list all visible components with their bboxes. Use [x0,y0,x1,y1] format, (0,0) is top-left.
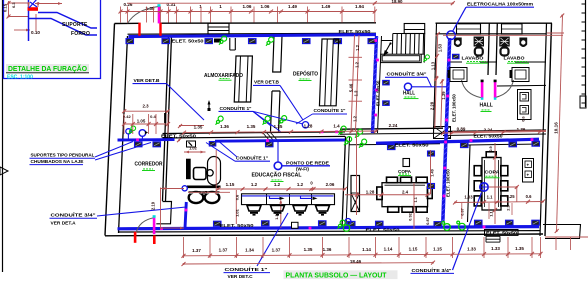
svg-text:1.35: 1.35 [247,124,256,129]
svg-text:1.35: 1.35 [304,247,313,252]
title PLANTA SUBSOLO LAYOUT [284,270,398,279]
svg-text:1.36: 1.36 [517,127,526,132]
wall: top wall outer line left section [115,22,140,24]
svg-text:VER DET.A: VER DET.A [51,220,77,226]
copa2 chairs [474,166,481,176]
svg-text:PONTO DE REDE: PONTO DE REDE [286,160,330,166]
svg-text:ELET. 100x50: ELET. 100x50 [452,94,457,122]
green clover symbols [217,35,228,46]
copa1 cabinet [351,176,360,212]
stairs treads [391,34,394,55]
svg-text:1.2: 1.2 [297,182,304,187]
hall double door arcs [462,80,481,98]
dims: right vertical 10.16 [557,15,563,233]
corridor office monitor [194,168,207,180]
wall: educacao fiscal right wall [342,136,346,228]
svg-text:1.1: 1.1 [487,194,493,199]
svg-text:1.15: 1.15 [409,247,418,252]
svg-text:2.19: 2.19 [151,201,156,210]
svg-text:1.1: 1.1 [414,197,418,202]
eletrocalha bottom wall run [118,227,540,229]
black tall numeral near corridor wall [164,113,166,123]
dims: right wall verticals 1.39/2.28 [435,76,437,128]
dims: copa2 red line from circle [489,186,518,188]
svg-text:10.16: 10.16 [554,122,559,134]
dims: red riser at desk 3 [280,201,282,228]
detail: forro ceiling blue lines [38,13,97,29]
svg-text:0.10: 0.10 [31,30,40,35]
dims: room verticals [235,190,237,224]
service box bottom wall [292,222,299,228]
red tick on corridor blue line [177,138,181,142]
wall: top wall inner line left section [128,33,377,34]
svg-text:1.13: 1.13 [431,61,436,70]
copa2 cabinet [523,159,534,183]
dims: copa2 row [455,202,543,203]
classroom desk band [242,194,335,205]
wall: top wall right section outer [436,22,553,24]
svg-text:SUPORTE: SUPORTE [62,22,88,28]
eletrocalha corridor mid run [118,138,175,141]
wall: deposito right wall (under riser) [372,36,376,133]
svg-text:1.35: 1.35 [194,124,203,129]
copa1 table [382,183,428,207]
svg-text:0.6: 0.6 [526,194,532,199]
svg-text:1.94: 1.94 [355,4,364,9]
svg-text:(W-FI): (W-FI) [296,167,309,172]
svg-text:FORRO: FORRO [71,31,90,37]
svg-text:5.46: 5.46 [349,83,354,92]
svg-text:LAVABO: LAVABO [462,55,484,60]
wall: almoxarifado-deposito divider lower [271,91,281,132]
black junction box on top wall [214,39,221,43]
svg-text:1.06: 1.06 [243,4,252,9]
wall: left wall inner [119,36,128,233]
deposito locker rack [319,39,338,106]
svg-text:1.28: 1.28 [304,124,313,129]
svg-text:ELET. 50x50: ELET. 50x50 [339,29,371,35]
eletrocalha vertical run mid (deposito wall) [373,36,377,133]
wall: corridor right wall [163,36,169,201]
svg-text:1.35: 1.35 [274,124,283,129]
wall: copa2 left wall [468,145,471,222]
svg-text:1.14: 1.14 [384,247,393,252]
eletrocalha educacao fiscal left wall run [185,202,186,228]
svg-text:DETALHE DA FURAÇÃO: DETALHE DA FURAÇÃO [8,64,88,73]
svg-text:2.3: 2.3 [506,204,511,210]
wall: lavabo floor walls [447,61,462,63]
svg-text:PLANTA SUBSOLO — LAYOUT: PLANTA SUBSOLO — LAYOUT [286,271,388,280]
wall: right wall inner [540,23,547,236]
stairs rail band [381,40,393,42]
svg-text:1.4: 1.4 [333,123,340,128]
junction box right run top [453,54,460,59]
node circle office [182,186,187,191]
svg-text:1.02: 1.02 [189,145,198,150]
corridor office shelf bar [186,159,191,180]
svg-text:1.2: 1.2 [354,61,359,67]
svg-text:1.01: 1.01 [234,208,239,217]
junction box right of marker [209,142,216,147]
svg-text:ELET. 100x50: ELET. 100x50 [446,169,451,197]
svg-text:0.3: 0.3 [11,2,16,8]
wall: right wall outer [545,23,552,236]
magenta taps on runs [136,138,139,141]
wall: copa2 top wall [467,144,540,145]
patio wall bottom right [543,225,581,239]
svg-text:LAVABO: LAVABO [504,55,525,60]
eletrocalha top wall run [129,35,377,37]
svg-text:0.6: 0.6 [522,116,526,121]
office chairs (two rings) [189,192,204,203]
wall: lavabo divider [488,23,489,75]
svg-text:ELET. 50x50: ELET. 50x50 [161,134,197,139]
hall double door leaves magenta [481,82,484,98]
dims: mid chain [184,131,376,133]
dims: corridor mini rows [124,110,168,112]
svg-text:ELET. 50x50: ELET. 50x50 [395,143,429,149]
svg-text:+: + [527,172,530,177]
small door symbol almoxarifado [208,102,210,111]
svg-text:1.37: 1.37 [192,248,201,253]
door corridor bottom: magenta leaf + cyan tip [153,218,156,235]
eletrocalha vertical run right ELET 100x50 [443,38,450,223]
eletrocalha leader circle [447,31,456,40]
wall: mid wall left portion (educacao fiscal top) [163,132,346,134]
detail: red vertical dim 0.15/0.3 [8,1,10,17]
svg-text:18.90: 18.90 [392,0,404,4]
lavabo toilet fixtures (inner) [474,37,484,47]
green junction circles bottom [442,221,466,230]
wall: almoxarifado-deposito divider upper [273,36,282,72]
svg-text:2.06: 2.06 [326,182,335,187]
copa2 node circle [480,183,488,191]
corridor office chair capsule [208,157,221,186]
svg-text:ELET. 50x50: ELET. 50x50 [376,80,381,106]
svg-text:DEPÓSITO: DEPÓSITO [293,69,318,77]
svg-text:1.03: 1.03 [464,195,473,200]
junction boxes bottom wall [214,221,222,226]
svg-text:0.87: 0.87 [461,208,465,215]
svg-text:2.4: 2.4 [402,189,409,194]
hall node circle and stem [404,83,411,90]
svg-text:0.15: 0.15 [3,3,8,12]
green junction circle copa1 left [343,225,350,232]
detail: blue bracket at top [29,0,37,8]
window boxes top wall [404,24,425,34]
svg-text:1.25: 1.25 [506,194,515,199]
office desk edge [187,186,221,189]
svg-text:1.2: 1.2 [354,90,359,96]
eletrocalha mid wall run (educacao fiscal) [215,140,345,141]
svg-text:2.28: 2.28 [430,101,435,110]
detail: suporte rod blue vertical [28,0,30,41]
svg-text:1.49: 1.49 [321,4,330,9]
junction boxes corridor mid [135,142,143,147]
svg-text:ELET. 50x50: ELET. 50x50 [474,133,503,138]
dims: top extension verticals [120,7,122,23]
svg-text:VER DET.B: VER DET.B [254,80,280,86]
wall: mid wall right portion (hall floor) [340,128,443,129]
svg-text:ELET. 50x50: ELET. 50x50 [486,230,517,235]
door corridor bottom: swing arc [136,218,154,233]
lavabo sinks [450,68,467,82]
svg-text:2.24: 2.24 [389,123,398,128]
svg-text:1.53: 1.53 [438,43,443,52]
svg-text:1.34: 1.34 [245,248,254,253]
svg-text:0.6: 0.6 [234,194,239,200]
copa1 chairs [387,177,398,183]
eletrocalha mid right run [376,141,460,143]
junction box X at mid wall [434,127,451,139]
junction box mid wall M [266,142,274,147]
almoxarifado shelf rack [234,56,252,102]
junction boxes right eletrocalha [428,151,435,156]
classroom computers [247,205,261,211]
svg-text:ELET. 50x50: ELET. 50x50 [172,39,204,45]
dims: bottom chain [184,254,541,256]
junction boxes top wall [126,39,134,44]
copa2 table [482,158,501,211]
copa1 small wall item [403,159,410,167]
wall: top-left outer corner / left wall outer [105,24,115,236]
dims: bottom extension verticals [183,237,185,258]
node circle corridor 2 [139,130,146,137]
svg-text:1.39: 1.39 [441,91,446,100]
svg-text:1.2: 1.2 [251,182,258,187]
svg-text:1.2: 1.2 [353,115,358,121]
svg-text:1.2: 1.2 [355,44,360,50]
lavabo basin fixtures (outer cups) [454,38,462,48]
sheet left border arrow marker [0,167,8,175]
dims: door sub-dim 1.35 line [179,125,204,127]
svg-text:EDUCAÇÃO FISCAL: EDUCAÇÃO FISCAL [252,171,302,178]
svg-text:HALL: HALL [403,90,415,96]
svg-text:1.47: 1.47 [199,190,208,195]
detail: red dim ticks at plate [28,2,30,7]
svg-text:1.37: 1.37 [272,247,281,252]
svg-text:CHUMBADOS NA LAJE: CHUMBADOS NA LAJE [31,159,84,164]
door hatch marks mid wall [262,132,278,141]
svg-text:0.4: 0.4 [150,114,156,119]
svg-text:1.33: 1.33 [467,246,476,251]
junction boxes deposito run [383,80,390,85]
svg-text:1.14: 1.14 [362,247,371,252]
hall fixture column [518,90,532,120]
detail: red horizontal dim arrows [35,3,62,5]
svg-text:1.06: 1.06 [261,4,270,9]
dims: red line across lavabos [443,34,563,36]
svg-text:0.9: 0.9 [489,146,493,151]
svg-text:1.49: 1.49 [288,4,297,9]
svg-text:1.15: 1.15 [226,182,235,187]
door top wall: swing arc [128,7,158,24]
svg-text:VER DET.B: VER DET.B [134,78,161,84]
wall: top wall right section inner [436,33,547,35]
node circle mid wall [302,122,308,128]
svg-text:1.15: 1.15 [433,246,442,251]
dims: top chain line [121,11,376,13]
svg-text:0.89: 0.89 [457,127,466,132]
svg-text:1.2: 1.2 [274,182,281,187]
svg-text:+: + [527,162,530,167]
svg-text:1.36: 1.36 [323,247,332,252]
wall: bottom wall outer [105,234,543,236]
wall: corridor bottom jog [156,202,171,224]
dims: stair right vertical 1.53/1.13 [436,33,438,80]
svg-text:VER DET.C: VER DET.C [228,274,254,280]
blue node circle copa1 left [345,219,351,225]
label PONTO DE REDE [274,162,282,170]
svg-text:CORREDOR: CORREDOR [135,162,163,168]
junction boxes mid right [388,145,396,150]
svg-text:HALL: HALL [480,103,493,109]
detail: red fixing plate [28,7,39,11]
dims: hall row line [452,130,546,131]
svg-text:SUPORTES TIPO PENDURAL: SUPORTES TIPO PENDURAL [31,153,95,158]
door top wall: magenta leaf + cyan tip [158,6,161,23]
wall: copa1 top wall [350,144,441,145]
wall: stairwell right wall [434,23,437,133]
svg-text:2.3: 2.3 [142,104,149,109]
detail: title DETALHE DA FURACAO [6,64,89,73]
dims: top overall line [127,2,453,4]
svg-text:1.28: 1.28 [366,189,375,194]
wall: bottom wall inner [119,231,541,232]
sheet left border line [2,0,4,272]
door top wall: red jambs [138,23,140,36]
node circle corridor 1 [126,129,131,134]
svg-text:18.46: 18.46 [350,259,362,264]
dims: copa1 [345,194,431,196]
dims: educacao fiscal row [218,188,345,190]
green clover corridor [127,125,137,135]
sheet right ruler line with ticks [585,0,587,107]
detail box border [4,0,101,79]
svg-text:1.33: 1.33 [491,246,500,251]
wall: hall-sink wall right [497,84,546,87]
dims: copa2 red vline through table [494,143,496,224]
door corridor bottom: red jambs [134,232,137,243]
dims: deposito verticals 1.2 chain [351,35,355,131]
dims: bottom overall 18.46 [184,263,434,264]
wall stub below top wall [230,38,236,50]
svg-text:1: 1 [219,4,222,9]
classroom desk blue cable tray [242,195,334,197]
svg-text:ESC. 1:100: ESC. 1:100 [7,75,33,81]
svg-text:1.49: 1.49 [431,169,435,176]
svg-text:1.05: 1.05 [137,118,146,123]
svg-text:1.37: 1.37 [219,248,228,253]
wall: top wall column recess [208,23,229,34]
svg-text:1.36: 1.36 [220,124,229,129]
svg-text:0.87: 0.87 [426,217,430,224]
svg-text:1.35: 1.35 [515,246,524,251]
exterior steps bottom right [486,235,500,237]
svg-text:ALMOXARIFADO: ALMOXARIFADO [204,73,243,79]
svg-text:COPA: COPA [485,170,501,176]
small box marker under desk [187,141,196,147]
svg-text:0.92: 0.92 [409,213,413,220]
stairs direction arrow [386,44,391,52]
svg-text:ELET. 50x50: ELET. 50x50 [366,228,400,234]
